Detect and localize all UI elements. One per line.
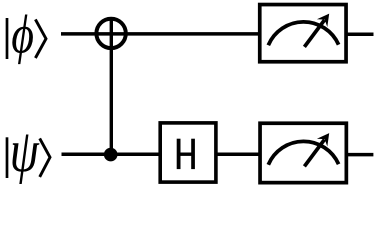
wire CNOT vertical (110, 18, 113, 154)
wire bottom-right stub (347, 153, 373, 157)
wire bottom rail left (62, 152, 161, 156)
control dot on bottom qubit (104, 148, 118, 162)
meter M1 needle (304, 20, 324, 47)
wire bottom rail mid (216, 152, 260, 156)
meter M1 box (top measurement) (260, 5, 346, 62)
qubit label |phi> (7, 15, 46, 65)
meter M1 arrowhead (317, 14, 329, 27)
meter M2 arc (268, 141, 338, 164)
wire top-right stub (347, 33, 374, 37)
gate H box (160, 123, 216, 182)
meter M2 arrowhead (317, 133, 329, 146)
meter M2 needle (304, 140, 324, 167)
CNOT target on top qubit (96, 19, 125, 48)
wire top rail (61, 32, 259, 36)
meter M2 box (bottom measurement) (260, 123, 346, 182)
qubit label |psi> (7, 135, 50, 184)
meter M1 arc (268, 22, 338, 45)
gate H letter (177, 139, 195, 169)
